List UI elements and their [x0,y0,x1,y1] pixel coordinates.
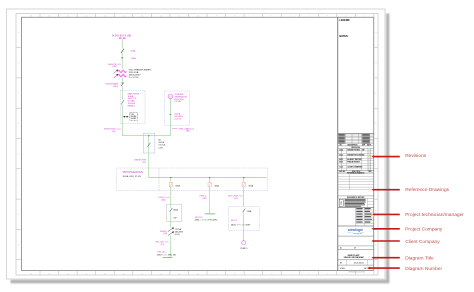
svg-text:8: 8 [234,273,235,275]
svg-text:5: 5 [290,16,291,18]
svg-text:3000AT: 3000AT [131,117,137,120]
svg-text:11: 11 [178,16,180,18]
page shadow [11,14,390,284]
cable label SWGR-BUS (35) [104,129,116,133]
svg-text:15: 15 [104,273,106,275]
svg-text:Project technician/manager: Project technician/manager [405,212,464,218]
svg-text:MCC-1: MCC-1 [231,220,238,222]
inner frame [22,17,374,270]
svg-text:16: 16 [85,273,87,275]
breaker CB1 [169,182,172,187]
svg-text:12: 12 [160,16,162,18]
svg-text:11-15: 11-15 [339,167,343,169]
cable label PNL-CBL (15) [155,242,165,246]
svg-text:100 KA: 100 KA [158,144,165,147]
enclosure switchgear bus lineup [117,168,268,191]
svg-text:9: 9 [216,16,217,18]
svg-text:Diagram Title: Diagram Title [405,256,434,262]
svg-text:600A: 600A [249,185,254,188]
wire: main riser [148,136,150,178]
svg-text:Revisions: Revisions [405,153,427,159]
svg-text:(3A): (3A) [161,198,165,201]
svg-text:208Y/120V, 3PH, 4W: 208Y/120V, 3PH, 4W [157,254,176,256]
breaker CB3 [242,182,245,187]
drawout breaker symbol U1 [123,116,128,117]
svg-text:(4B): (4B) [113,66,117,68]
svg-text:PNL-2A —: PNL-2A — [157,250,168,253]
svg-text:13: 13 [141,273,143,275]
node J3 [209,177,210,178]
svg-text:SWITCHGEAR BUS: SWITCHGEAR BUS [122,171,143,174]
svg-text:14: 14 [122,16,124,18]
motor M2 [242,241,246,245]
cable label GEN-CBL (90) [179,127,195,132]
enclosure E3 MCC [228,207,259,231]
svg-text:17: 17 [67,273,69,275]
title block [338,17,374,273]
svg-text:DESCRIPTION: DESCRIPTION [348,144,358,146]
breaker M1 rating label [158,140,165,150]
drawout cell F1 [167,204,182,221]
wire [121,78,123,83]
fused switch FS1 [121,83,124,87]
svg-text:windlogic: windlogic [348,228,363,232]
svg-text:7: 7 [253,16,254,18]
svg-text:FILE NO: FILE NO [339,171,346,173]
annotation arrow: Diagram Title [374,257,400,259]
svg-text:!: ! [340,201,341,206]
svg-text:6: 6 [271,273,272,275]
svg-text:1: 1 [364,16,365,18]
wire [121,124,123,136]
breaker 52G tick [169,114,171,116]
wire [169,99,171,126]
svg-text:REVISIONS: REVISIONS [351,147,360,149]
wire feeder2 [209,178,211,183]
svg-text:5: 5 [290,273,291,275]
wire feeder3 [243,178,245,183]
svg-text:(35): (35) [112,131,116,133]
svg-text:Reference Drawings: Reference Drawings [405,187,449,193]
svg-text:11: 11 [178,273,180,275]
svg-text:600A: 600A [131,49,136,52]
breaker cell M1 [143,133,154,153]
enclosure E1 nameplate label [128,92,140,107]
wire [170,187,172,204]
disconnect switch DS1 [121,49,124,54]
generator G1 label [174,94,187,103]
transformer SSVT terminal bus [205,213,216,215]
wire [121,105,123,124]
svg-text:Diagram Number: Diagram Number [405,266,442,272]
svg-text:LSIG: LSIG [158,147,163,149]
svg-text:13: 13 [141,16,143,18]
transformer T1 GSU windings [118,70,127,76]
svg-text:(90): (90) [186,131,190,133]
svg-text:7: 7 [253,273,254,275]
generator G1 [168,94,173,99]
svg-text:480V, 3PH, 4W, 60HZ: 480V, 3PH, 4W, 60HZ [231,225,251,227]
title block left boundary [337,17,339,270]
svg-text:10: 10 [197,16,199,18]
svg-text:2.0 MW: 2.0 MW [174,101,181,103]
svg-text:1: 1 [364,273,365,275]
svg-text:(15): (15) [160,244,164,246]
wire [170,236,172,258]
cable label FDR-1 (3A) [158,197,165,201]
svg-text:34.5KV BUS A (4B): 34.5KV BUS A (4B) [112,34,132,37]
svg-text:09-15: 09-15 [339,162,343,164]
wire [243,187,245,207]
wire [121,53,123,68]
svg-text:100A: 100A [247,210,252,213]
svg-text:REV: REV [369,171,372,173]
svg-text:(1B): (1B) [163,233,167,235]
svg-text:400A: 400A [214,185,219,188]
annotation arrow: Reference Drawings [374,189,400,191]
node J1 [148,135,149,136]
svg-text:15: 15 [104,16,106,18]
svg-text:105-E-001 A: 105-E-001 A [354,261,365,264]
svg-text:ISSUED FOR CONST: ISSUED FOR CONST [347,154,362,156]
node J4 [243,177,244,178]
svg-text:(2C): (2C) [142,162,146,164]
svg-text:18: 18 [48,273,50,275]
breaker 52P contact [243,209,246,213]
busbar terminal marks [119,38,122,39]
cable label MCC-FDR (3C) [228,196,238,200]
svg-text:16: 16 [85,16,87,18]
breaker 52M contact [121,100,124,105]
cable label SWGR-FDR (2C) [134,159,146,163]
svg-text:SINGLE LINE DIAGRAM: SINGLE LINE DIAGRAM [344,256,364,259]
svg-text:3000A, 480V, 3P, 4W: 3000A, 480V, 3P, 4W [123,175,141,178]
svg-text:6: 6 [271,16,272,18]
transformer T1 ratings label [129,68,152,79]
wire [170,204,172,207]
enclosure E1 main switchgear [120,90,145,123]
svg-text:PUMP-1: PUMP-1 [240,248,247,250]
svg-text:Project Company: Project Company [405,226,443,232]
svg-text:4: 4 [308,16,309,18]
svg-text:18: 18 [48,16,50,18]
svg-text:G: G [169,95,171,98]
svg-text:PRELIM REVIEW: PRELIM REVIEW [347,162,360,164]
svg-text:19: 19 [30,16,32,18]
enclosure E2 turbine generator [165,91,190,125]
svg-text:3: 3 [327,273,328,275]
svg-text:2: 2 [346,16,347,18]
svg-text:Z=5.8%: Z=5.8% [174,118,181,120]
annotation arrow: Revisions [374,156,400,158]
svg-text:3: 3 [327,16,328,18]
svg-text:LEGEND:: LEGEND: [339,19,350,22]
wire [169,125,171,136]
wire: source drop [121,39,123,48]
outer border [16,14,378,276]
svg-text:8: 8 [234,16,235,18]
annotation arrow: Diagram Number [369,267,399,269]
svg-text:NOTES:: NOTES: [339,35,348,38]
breaker CB2 [208,182,211,187]
svg-text:NEMA 1: NEMA 1 [128,104,136,107]
svg-text:06-15: 06-15 [339,159,343,161]
surge arrester SA1 [121,57,123,59]
svg-text:CLIENT COMMENTS: CLIENT COMMENTS [347,167,362,169]
svg-text:2: 2 [346,273,347,275]
svg-text:Client Company: Client Company [405,239,440,245]
panelboard PNL-2A bus [163,257,173,259]
svg-text:800A: 800A [174,208,179,211]
svg-text:ISSUED FOR BID: ISSUED FOR BID [347,149,360,151]
svg-text:(3C): (3C) [234,198,238,200]
converter label [174,113,183,121]
svg-text:(3B): (3B) [202,198,206,200]
wire: collector tie [122,135,170,137]
svg-text:15KA: 15KA [131,57,137,60]
cable label GEN-TIE (4B) [108,64,117,68]
svg-text:4: 4 [308,273,309,275]
svg-text:3000A: 3000A [158,141,164,144]
sheet page [7,9,386,279]
red annotations [367,153,464,272]
cable label SWGR-MAIN (600) [105,82,118,87]
annotation arrow: Project technician/manager [374,213,399,215]
svg-text:Z = 5.75%: Z = 5.75% [129,77,139,79]
annotation arrow: Project Company [374,228,400,230]
wire [121,86,123,100]
svg-text:(600): (600) [113,86,118,88]
cable label FDR-2 (3B) [200,196,207,200]
svg-text:9: 9 [216,273,217,275]
svg-text:19: 19 [30,273,32,275]
svg-text:12: 12 [160,273,162,275]
wire feeder1 [170,178,172,183]
svg-text:480V, 15KVA, 1PH, 60HZ: 480V, 15KVA, 1PH, 60HZ [195,218,218,221]
transformer T2 label [160,231,168,235]
breaker M1 contact [148,143,151,147]
svg-text:10: 10 [197,273,199,275]
svg-text:03-15: 03-15 [339,154,343,156]
svg-text:600A: 600A [176,185,181,188]
cell divider [158,168,160,191]
bus B1 conductor [149,177,267,179]
transformer T2 tap arrows [168,228,174,236]
svg-text:17: 17 [67,16,69,18]
svg-text:C:\WIND\105-E-001.DWG: C:\WIND\105-E-001.DWG [348,272,366,274]
svg-text:14: 14 [122,273,124,275]
wire [209,187,211,214]
zone ticks [16,14,378,276]
breaker 52F contact [170,208,173,212]
svg-text:(Z=3): (Z=3) [175,234,180,236]
node J2 [170,177,171,178]
transformer T1 tap arrows [114,70,118,78]
wire [243,212,245,240]
annotation arrow: Client Company [374,240,400,242]
